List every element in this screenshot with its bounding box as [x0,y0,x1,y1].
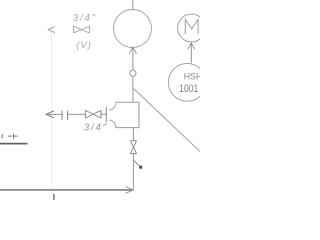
svg-text:(V): (V) [76,40,92,51]
svg-text:1001: 1001 [179,83,198,95]
svg-text:3/4": 3/4" [84,123,108,134]
svg-text:HSH: HSH [184,72,200,83]
svg-text:3/4": 3/4" [73,13,97,24]
